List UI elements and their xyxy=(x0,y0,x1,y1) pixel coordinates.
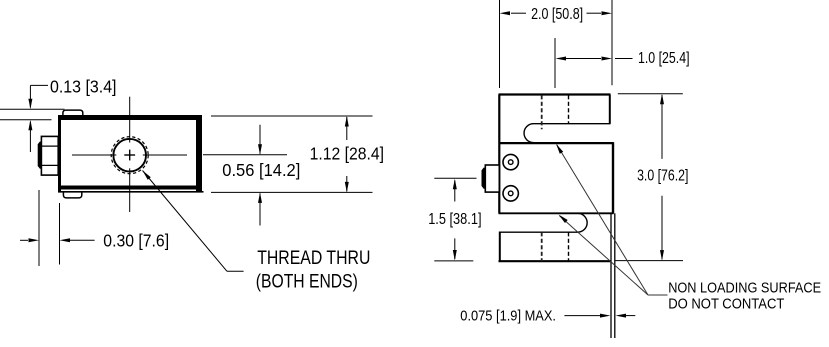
center cross xyxy=(124,154,135,156)
right view: S-beam load cell front view xyxy=(434,95,615,339)
dimension 1.12 arrows xyxy=(346,117,348,140)
bottom mounting bump (left view) xyxy=(63,191,81,198)
dimension 0.30 extension lines xyxy=(38,190,40,266)
svg-text:0.075 [1.9] MAX.: 0.075 [1.9] MAX. xyxy=(460,308,556,325)
dimension 0.13 extension line (bump top) xyxy=(0,108,65,110)
body outline (left view) xyxy=(58,115,202,193)
connector tip (right view, solid) xyxy=(482,168,486,189)
dimension 1.0 extension line (thread center) xyxy=(554,38,556,88)
svg-text:2.0 [50.8]: 2.0 [50.8] xyxy=(531,6,583,23)
dimension 2.0 extension lines xyxy=(499,0,501,88)
dimension 0.56 extension line (center) xyxy=(203,154,287,156)
connector centerline xyxy=(434,177,476,179)
dimension 1.5 extension line (bottom) xyxy=(434,260,473,262)
svg-text:1.0 [25.4]: 1.0 [25.4] xyxy=(638,50,690,67)
dimension 3.0 line and arrows xyxy=(661,95,663,159)
leader to middle body bottom surface xyxy=(560,216,649,295)
horizontal centerline xyxy=(72,154,116,156)
thread outer dashed circle xyxy=(111,137,148,174)
dimension 1.12 extension lines xyxy=(211,115,373,117)
svg-text:1.5 [38.1]: 1.5 [38.1] xyxy=(428,211,481,228)
dimension 2.0 line and arrows xyxy=(511,12,526,14)
vertical centerline xyxy=(129,97,131,143)
lower bar outline xyxy=(500,231,578,233)
dimension 0.13 leader xyxy=(29,85,31,107)
overload gap lines 0.075 xyxy=(610,213,612,338)
dimension 1.5 arrows xyxy=(454,181,456,202)
middle body outline xyxy=(499,142,614,144)
dimension 0.13 extension line (body top) xyxy=(0,119,52,121)
svg-text:(BOTH ENDS): (BOTH ENDS) xyxy=(256,272,358,293)
dimension 3.0 extension lines xyxy=(618,93,683,95)
leader horizontal to note xyxy=(648,294,668,296)
dimension 0.075 line and arrows xyxy=(564,315,601,317)
thread hole circle xyxy=(113,139,146,172)
connector tip (left view, solid) xyxy=(38,142,42,169)
dimension 0.13 lower arrow xyxy=(29,122,31,153)
svg-text:3.0 [76.2]: 3.0 [76.2] xyxy=(637,168,688,185)
svg-text:THREAD THRU: THREAD THRU xyxy=(257,248,370,269)
thread-thru leader line xyxy=(143,171,228,272)
top mounting bump (left view) xyxy=(63,110,83,116)
svg-text:0.56 [14.2]: 0.56 [14.2] xyxy=(222,160,300,180)
left column edge xyxy=(498,95,500,214)
hidden thread lines top bar xyxy=(541,95,543,129)
svg-text:DO NOT CONTACT: DO NOT CONTACT xyxy=(668,297,784,313)
leader to middle body top surface xyxy=(557,145,648,295)
left view: load cell body top view xyxy=(38,97,204,212)
S-beam body fill xyxy=(499,95,614,262)
hidden thread lines lower bar xyxy=(541,232,543,261)
screw circle lower xyxy=(503,186,518,201)
dimension 1.0 line and arrows xyxy=(565,58,601,60)
bottom plate line (left view) xyxy=(58,191,204,193)
svg-text:1.12 [28.4]: 1.12 [28.4] xyxy=(310,143,384,163)
svg-text:0.13 [3.4]: 0.13 [3.4] xyxy=(50,77,117,97)
svg-text:NON LOADING SURFACE: NON LOADING SURFACE xyxy=(668,280,821,296)
hex nut connector (left view) xyxy=(41,136,58,175)
dimension 0.30 arrows xyxy=(20,239,28,241)
svg-text:0.30 [7.6]: 0.30 [7.6] xyxy=(103,231,169,251)
dimension 0.56 arrows xyxy=(259,125,261,154)
connector (right view) xyxy=(485,165,499,192)
screw circle upper xyxy=(503,154,518,169)
top bar outline xyxy=(499,93,611,95)
lower slot arc xyxy=(578,213,587,232)
upper slot arc xyxy=(524,124,533,143)
